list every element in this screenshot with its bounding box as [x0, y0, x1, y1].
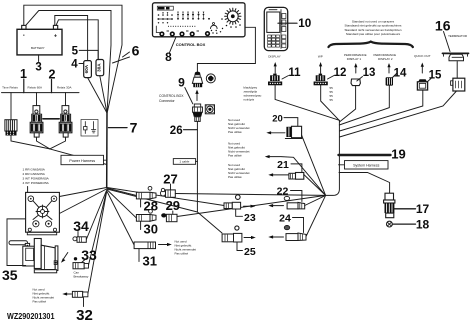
svg-text:16: 16	[435, 18, 451, 34]
svg-text:3 WT POWER/60A: 3 WT POWER/60A	[23, 177, 50, 181]
wire battery plus to fuse 30A	[56, 20, 98, 60]
svg-text:Power Harness: Power Harness	[69, 159, 95, 163]
svg-text:19: 19	[391, 147, 405, 162]
1 cable box	[173, 159, 197, 165]
svg-text:18: 18	[416, 217, 430, 231]
wire battery minus to right loop 1	[24, 5, 122, 112]
connector 13	[351, 79, 360, 86]
knob 23	[236, 195, 241, 200]
svg-text:DISPLAY 2: DISPLAY 2	[378, 57, 393, 61]
not used text block 3	[228, 163, 250, 179]
svg-text:14: 14	[394, 68, 407, 80]
power harness box	[61, 155, 107, 164]
callout 33	[81, 247, 97, 263]
arrow up to display	[274, 62, 277, 73]
svg-text:30A: 30A	[96, 63, 101, 72]
connector 32	[72, 291, 87, 297]
left fan bundle	[59, 188, 224, 294]
callout 15	[427, 70, 442, 82]
svg-text:Connector: Connector	[159, 99, 176, 103]
wire 12 to harness	[321, 85, 340, 120]
wire harness to connector 17	[339, 173, 390, 194]
wire 29 to right fan	[177, 195, 326, 216]
svg-text:3: 3	[35, 62, 41, 74]
fuse F2 30A	[96, 60, 107, 113]
connector 17	[384, 193, 395, 218]
wire control box to connector 9	[197, 27, 255, 72]
svg-text:2: 2	[49, 67, 56, 81]
arrow left row stub	[265, 155, 281, 158]
connector 34	[73, 237, 86, 243]
wire 20 to fan	[302, 135, 326, 195]
wire 15 to harness	[340, 90, 423, 131]
curly brace	[329, 42, 413, 47]
wire 21 to fan	[304, 175, 326, 196]
svg-text:WP: WP	[318, 54, 323, 58]
wire battery plus to fuse 60A	[55, 16, 88, 61]
arrow left 32	[62, 292, 71, 295]
callout 27	[163, 171, 177, 190]
callout 1	[20, 67, 27, 93]
label CONTROL BOX Connector	[159, 94, 184, 103]
not used text block 2	[228, 142, 250, 158]
arrow up 15	[421, 63, 424, 74]
svg-text:1 RR GN65/60A: 1 RR GN65/60A	[23, 168, 46, 172]
dial	[221, 8, 241, 28]
svg-text:31: 31	[143, 254, 157, 269]
main power bundle	[106, 113, 108, 187]
wire 22 to fan	[305, 195, 326, 205]
connector 12	[314, 74, 328, 86]
arrow right 25	[244, 236, 256, 239]
callout 3	[35, 55, 41, 74]
connector 15 quick out	[417, 79, 427, 90]
svg-text:33: 33	[81, 247, 97, 263]
standard not used text	[344, 19, 401, 36]
svg-text:35: 35	[2, 267, 18, 283]
callout 4	[71, 58, 83, 70]
relay K2 30A	[59, 93, 72, 138]
label PERFORMANCE DISPLAY 2	[374, 53, 397, 61]
connector 14	[386, 77, 393, 85]
svg-text:Pas utilisé: Pas utilisé	[175, 252, 189, 256]
connector 21	[289, 173, 304, 180]
time relay K0	[5, 93, 17, 136]
control box connector upper	[192, 72, 202, 88]
wire 14 to harness	[339, 86, 389, 125]
callout 9	[178, 76, 193, 104]
harness trunk spine	[326, 120, 340, 195]
relay K1 60A	[30, 93, 43, 138]
terminator plate	[443, 53, 469, 60]
connector 27	[160, 188, 175, 197]
arrow left row 20	[266, 131, 285, 134]
knob row	[159, 31, 210, 37]
callout 5	[72, 46, 99, 60]
svg-text:26: 26	[170, 125, 183, 137]
svg-text:24: 24	[279, 213, 291, 225]
svg-text:9: 9	[178, 76, 185, 90]
svg-text:DISPLAY: DISPLAY	[268, 54, 280, 58]
wire 27 to right fan	[175, 194, 325, 196]
callout 25	[237, 242, 256, 258]
svg-text:29: 29	[166, 198, 180, 213]
connector 31	[134, 242, 155, 249]
system harness box	[339, 161, 389, 169]
svg-text:7: 7	[130, 119, 138, 135]
callout 17	[394, 202, 429, 216]
callout 7	[109, 119, 138, 135]
arrow left 33	[61, 253, 68, 263]
svg-text:4 WT POWER/25A: 4 WT POWER/25A	[23, 181, 50, 185]
not used text 32	[33, 287, 55, 303]
callout 6	[113, 43, 140, 63]
callout 29	[166, 198, 180, 213]
plug cap 22	[284, 196, 289, 200]
power harness list	[23, 168, 50, 186]
svg-text:32: 32	[76, 307, 93, 323]
connector 11	[268, 74, 282, 86]
arrow up 13	[354, 63, 357, 73]
svg-text:DISPLAY 1: DISPLAY 1	[347, 57, 362, 61]
cap 18	[387, 221, 393, 227]
callout 19	[339, 147, 406, 162]
arrow up 14	[387, 63, 390, 73]
callout 14	[392, 68, 407, 80]
svg-text:Standard pas utilisé pour pulv: Standard pas utilisé pour pulvérisateurs	[346, 32, 401, 36]
callout 22	[277, 186, 302, 202]
svg-text:13: 13	[363, 67, 376, 79]
svg-text:34: 34	[73, 218, 89, 234]
connector 22	[287, 202, 305, 209]
not used text block 1	[228, 118, 250, 134]
label 55 column	[330, 86, 334, 102]
svg-text:17: 17	[416, 202, 430, 216]
svg-text:2 RR GN63/25A: 2 RR GN63/25A	[23, 172, 46, 176]
svg-text:Relais 60A: Relais 60A	[28, 86, 43, 90]
svg-text:25: 25	[244, 246, 256, 258]
svg-text:CONTROL BOX: CONTROL BOX	[176, 42, 206, 47]
svg-text:System Harness: System Harness	[353, 163, 380, 167]
svg-text:27: 27	[163, 171, 177, 186]
label PERFORMANCE DISPLAY 1	[344, 53, 367, 61]
callout 18	[393, 217, 430, 231]
callout 13	[357, 67, 376, 81]
svg-text:QUICK OUT: QUICK OUT	[414, 54, 431, 58]
ground test box	[81, 120, 98, 137]
svg-text:8: 8	[165, 50, 172, 64]
wire relays to junction	[37, 137, 50, 149]
knob 25	[235, 226, 239, 230]
connector 29	[161, 213, 177, 221]
callout 34	[73, 218, 89, 236]
fuse F1 60A	[84, 61, 107, 113]
harness stub row2 wire from fan	[281, 157, 326, 196]
arrow up between connectors	[195, 90, 198, 101]
connector 28	[136, 186, 156, 199]
wire relay link	[43, 118, 59, 120]
callout 31	[139, 249, 157, 269]
svg-text:10: 10	[298, 17, 312, 30]
wire terminator to harness	[340, 91, 457, 137]
svg-text:+: +	[54, 34, 57, 40]
battery	[17, 25, 62, 55]
connector 23	[224, 202, 241, 209]
svg-text:BATTERY: BATTERY	[31, 46, 45, 50]
wire 13 to harness	[339, 86, 355, 122]
callout 16	[435, 18, 451, 52]
callout 28	[141, 199, 158, 214]
svg-text:WZ290201301: WZ290201301	[7, 311, 55, 321]
svg-text:Breakaway: Breakaway	[74, 274, 89, 278]
terminator connector	[451, 62, 465, 92]
svg-text:30: 30	[144, 221, 158, 236]
wire connector 9 down	[197, 121, 222, 233]
svg-text:-: -	[23, 33, 25, 39]
wire battery minus to right loop 2	[26, 11, 111, 113]
plug 33	[74, 257, 77, 260]
svg-text:Pas utilisé: Pas utilisé	[228, 175, 242, 179]
svg-text:1: 1	[20, 67, 27, 81]
callout 20	[272, 113, 298, 126]
svg-text:22: 22	[277, 186, 289, 198]
wire panel to solenoid	[7, 219, 26, 266]
svg-text:11: 11	[288, 67, 301, 79]
connector 30	[136, 209, 156, 221]
arrow right 31	[159, 243, 172, 246]
callout 8	[165, 37, 176, 64]
callout 11	[282, 67, 301, 79]
callout 26	[170, 125, 198, 137]
not used text 31	[175, 240, 197, 256]
svg-text:4: 4	[71, 58, 78, 70]
svg-text:21: 21	[277, 159, 289, 171]
svg-text:20: 20	[272, 113, 283, 124]
connector 24	[286, 233, 306, 241]
callout 23	[236, 209, 256, 224]
svg-text:15: 15	[429, 70, 442, 82]
round connector lower	[205, 105, 214, 114]
svg-text:6: 6	[132, 43, 140, 59]
wire 11 to harness	[275, 85, 339, 120]
svg-text:Relais 30A: Relais 30A	[57, 86, 72, 90]
solenoid	[9, 239, 58, 273]
control box connector lower	[193, 104, 203, 121]
relay table header rule	[2, 92, 80, 94]
arrow up 12	[319, 62, 322, 73]
label black/grey 4 lang	[244, 85, 262, 101]
svg-text:5: 5	[72, 46, 79, 58]
wire 24 to fan	[306, 195, 326, 236]
svg-text:55: 55	[330, 98, 334, 102]
label Can Breakaway	[74, 270, 89, 278]
svg-text:noir/gris: noir/gris	[244, 97, 255, 101]
round connector upper	[206, 74, 215, 83]
arrow left row 21	[268, 173, 288, 176]
svg-text:1 cable: 1 cable	[179, 160, 189, 164]
arrow left row 24	[268, 235, 283, 238]
callout 10	[278, 17, 312, 30]
svg-text:Pas utilisé: Pas utilisé	[228, 154, 242, 158]
svg-text:60A: 60A	[84, 64, 89, 73]
callout 21	[277, 159, 302, 172]
connector 33	[73, 263, 89, 269]
connector 20	[285, 126, 302, 138]
callout 32	[76, 298, 93, 323]
svg-text:Pas utilisé: Pas utilisé	[33, 299, 47, 303]
junction panel	[26, 187, 60, 235]
svg-text:Time Relais: Time Relais	[2, 86, 18, 90]
callout 12	[328, 67, 347, 79]
callout 24	[279, 213, 303, 233]
callout 30	[141, 221, 158, 236]
arrow left row 22	[268, 204, 283, 207]
control box	[153, 3, 246, 37]
svg-text:TERMINATOR: TERMINATOR	[448, 34, 467, 38]
svg-text:CONTROL BOX: CONTROL BOX	[159, 94, 184, 98]
svg-text:23: 23	[244, 212, 256, 224]
svg-text:Pas utilisé: Pas utilisé	[228, 130, 242, 134]
connector 25	[222, 233, 242, 242]
svg-text:12: 12	[334, 67, 347, 79]
phone display device	[264, 7, 287, 50]
plug cap 24	[284, 226, 289, 230]
arrow right 23	[244, 205, 256, 208]
callout 2	[49, 67, 56, 92]
